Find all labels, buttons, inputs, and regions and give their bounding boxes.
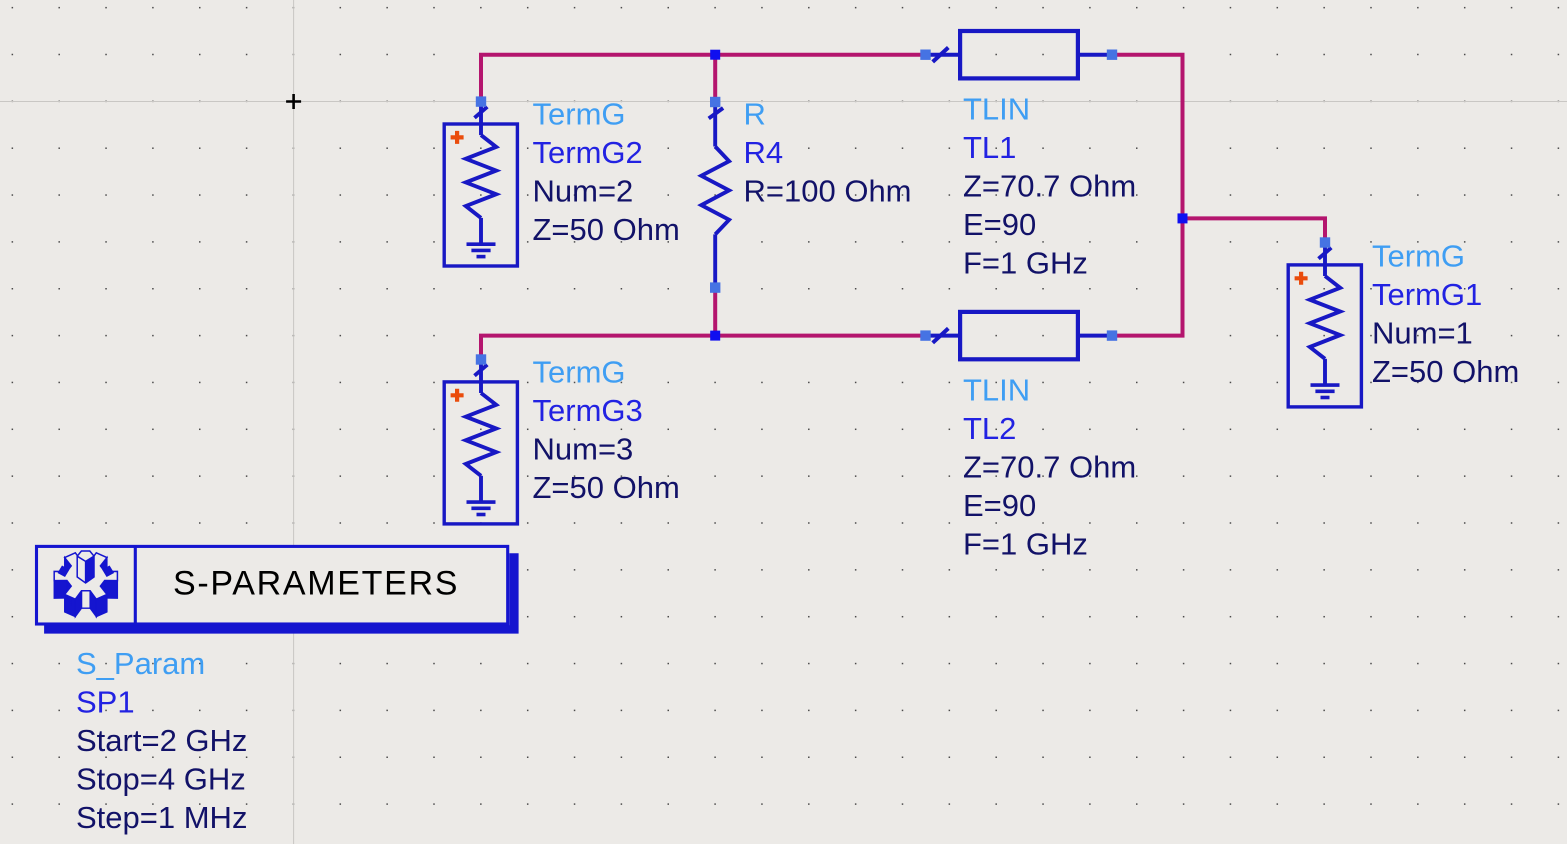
svg-text:TL2: TL2 [963, 411, 1016, 446]
wire: TermG3 pin up and bottom bus to TL2 pin1 [481, 336, 926, 360]
ground of TermG3 [467, 502, 496, 514]
svg-text:TL1: TL1 [963, 130, 1016, 165]
wire: TL1 pin2 right, trunk down, to TL2 pin2 [1112, 55, 1183, 336]
svg-text:E=90: E=90 [963, 207, 1036, 242]
label TermG2 text [533, 97, 680, 248]
pin node: TermG1 pin 1 [1320, 237, 1330, 247]
svg-text:TermG: TermG [533, 97, 626, 132]
plus polarity mark of TermG3 [451, 389, 464, 402]
label TermG1 text [1372, 239, 1519, 390]
svg-text:S_Param: S_Param [76, 646, 205, 681]
svg-text:Stop=4 GHz: Stop=4 GHz [76, 762, 246, 797]
svg-text:TermG3: TermG3 [533, 393, 643, 428]
label TL1 text [963, 92, 1136, 281]
junction: top bus / R4 [710, 50, 720, 60]
term TermG3 symbol [444, 360, 517, 524]
svg-text:R4: R4 [744, 135, 784, 170]
resistor R4 symbol [701, 102, 729, 288]
svg-text:F=1 GHz: F=1 GHz [963, 246, 1088, 281]
pin node: TermG3 pin 1 [476, 354, 486, 364]
svg-text:Z=50 Ohm: Z=50 Ohm [1372, 354, 1519, 389]
svg-text:R: R [744, 97, 766, 132]
ground of TermG1 [1311, 385, 1340, 397]
svg-text:R=100 Ohm: R=100 Ohm [744, 174, 912, 209]
svg-text:Z=70.7 Ohm: Z=70.7 Ohm [963, 449, 1136, 484]
wire: TermG2 pin up and top bus to TL1 pin1 [481, 55, 926, 102]
svg-text:TermG: TermG [533, 355, 626, 390]
svg-text:Z=70.7 Ohm: Z=70.7 Ohm [963, 169, 1136, 204]
svg-text:Z=50 Ohm: Z=50 Ohm [533, 212, 680, 247]
svg-text:Z=50 Ohm: Z=50 Ohm [533, 470, 680, 505]
plus polarity mark of TermG2 [451, 131, 464, 144]
plus polarity mark of TermG1 [1295, 272, 1308, 285]
label SP1 text [76, 646, 247, 835]
svg-text:TLIN: TLIN [963, 372, 1030, 407]
svg-text:E=90: E=90 [963, 488, 1036, 523]
term TermG2 symbol [444, 102, 517, 266]
origin marker [286, 94, 301, 109]
svg-text:TermG2: TermG2 [533, 135, 643, 170]
pin node: TL2 pin 2 [1107, 330, 1117, 340]
pin node: R4 pin 2 [710, 282, 720, 292]
junction: bottom bus / R4 [710, 331, 720, 341]
svg-text:SP1: SP1 [76, 685, 135, 720]
label TermG3 text [533, 355, 680, 506]
label R4 text [744, 97, 912, 209]
S-parameters simulation controller SP1 box [37, 546, 519, 633]
ground of TermG2 [467, 244, 496, 256]
pin node: TermG2 pin 1 [476, 96, 486, 106]
svg-text:Num=3: Num=3 [533, 432, 634, 467]
pin node: R4 pin 1 [710, 97, 720, 107]
term TermG1 symbol [1288, 243, 1361, 407]
junction: trunk / TermG1 branch [1178, 213, 1188, 223]
pin node: TL1 pin 2 [1107, 50, 1117, 60]
svg-text:Num=1: Num=1 [1372, 316, 1473, 351]
svg-text:TermG: TermG [1372, 239, 1465, 274]
gear icon of S-parameters controller [54, 551, 117, 617]
svg-text:S-PARAMETERS: S-PARAMETERS [173, 565, 459, 603]
svg-text:F=1 GHz: F=1 GHz [963, 526, 1088, 561]
transmission line TL2 symbol [926, 312, 1113, 359]
svg-text:TermG1: TermG1 [1372, 277, 1482, 312]
svg-text:TLIN: TLIN [963, 92, 1030, 127]
label TL2 text [963, 372, 1136, 561]
svg-text:Num=2: Num=2 [533, 174, 634, 209]
wire: R4 pin2 to bottom junction [713, 288, 717, 336]
svg-text:Start=2 GHz: Start=2 GHz [76, 723, 247, 758]
pin node: TL1 pin 1 [920, 50, 930, 60]
wire: top junction to R4 pin1 [713, 55, 717, 102]
transmission line TL1 symbol [926, 31, 1113, 78]
svg-text:Step=1 MHz: Step=1 MHz [76, 800, 247, 835]
pin node: TL2 pin 1 [920, 330, 930, 340]
wire: trunk junction to TermG1 pin [1183, 218, 1326, 242]
